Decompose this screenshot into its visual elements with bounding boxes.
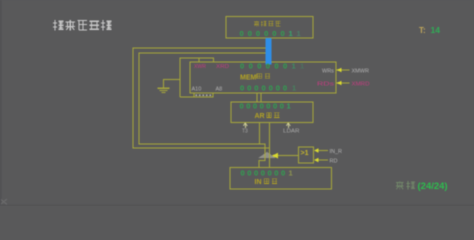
svg-text:XMRD: XMRD — [352, 82, 370, 88]
svg-text:A10: A10 — [192, 87, 202, 93]
MEM address value 00000001 — [240, 84, 296, 93]
wire loop B: bus to IN tri-state (inner) — [139, 53, 266, 168]
wire loop A: bus to IN tri-state (outer) — [133, 48, 270, 168]
svg-text:T:: T: — [419, 26, 426, 35]
label 数据总线 — [254, 21, 280, 27]
svg-text:1: 1 — [297, 29, 301, 38]
svg-text:XWR: XWR — [194, 64, 206, 70]
data bus box 数据总线 — [226, 17, 313, 39]
wire MEM to AR (left) — [256, 93, 258, 102]
wire MEM to AR (right) — [260, 93, 262, 102]
ground — [158, 88, 170, 92]
IN unit box — [230, 168, 332, 190]
svg-text:AR: AR — [255, 113, 265, 120]
svg-text:(24/24): (24/24) — [418, 181, 448, 192]
OR input IN_R — [318, 150, 328, 152]
svg-text:1: 1 — [289, 29, 293, 38]
wire AR down right — [269, 123, 271, 149]
signal arrow XMWR into MEM — [337, 69, 350, 71]
blue bus bar (active data transfer) — [266, 38, 272, 65]
svg-text:1: 1 — [287, 102, 291, 111]
OR input RD — [318, 159, 328, 161]
AR value 00000001 — [240, 102, 291, 111]
progress text 运行(24/24) — [396, 181, 415, 190]
svg-text:XRD: XRD — [216, 64, 229, 70]
svg-text:IN_R: IN_R — [330, 149, 343, 155]
wire AR down left — [259, 123, 261, 145]
svg-text:IN: IN — [255, 179, 262, 186]
OR gate box — [299, 147, 314, 163]
svg-text:1: 1 — [300, 62, 304, 71]
control arrow LDAR into AR — [286, 123, 290, 128]
ground net bracket above MEM — [180, 58, 214, 97]
enable arrow from OR gate to tri-state — [277, 155, 299, 157]
tri-state buffer triangle above IN — [259, 152, 274, 157]
svg-text:1: 1 — [292, 62, 296, 71]
svg-text:RD: RD — [330, 159, 338, 165]
svg-text:T3: T3 — [242, 129, 248, 135]
ground net pin stub — [198, 58, 200, 62]
svg-text:1: 1 — [292, 84, 296, 93]
svg-text:RDs: RDs — [317, 82, 334, 88]
wire ground stub to MEM bottom — [180, 96, 195, 98]
title 存储器实验 — [53, 20, 111, 30]
wire to ground symbol — [164, 80, 180, 88]
svg-text:LDAR: LDAR — [283, 129, 300, 135]
DIP indicator box under MEM — [194, 93, 213, 97]
IN value 0000000 1 — [241, 169, 293, 178]
data bus value 00000011 — [240, 29, 301, 38]
control arrow T3 into AR — [243, 123, 247, 128]
AR unit box — [231, 102, 313, 123]
bottom-left corner artifact — [1, 199, 7, 205]
MEM data value 00000011 — [240, 62, 304, 71]
svg-text:14: 14 — [431, 25, 441, 35]
svg-text:MEM: MEM — [240, 75, 257, 82]
svg-text:>1: >1 — [301, 150, 309, 157]
window edge left — [0, 0, 2, 206]
svg-text:XMWR: XMWR — [352, 69, 369, 75]
svg-text:A8: A8 — [216, 87, 223, 93]
svg-text:1: 1 — [289, 169, 293, 178]
window edge bottom — [0, 205, 474, 207]
MEM unit box — [190, 62, 336, 93]
signal arrow XMRD into MEM — [337, 82, 350, 84]
svg-text:WRs: WRs — [322, 69, 334, 75]
